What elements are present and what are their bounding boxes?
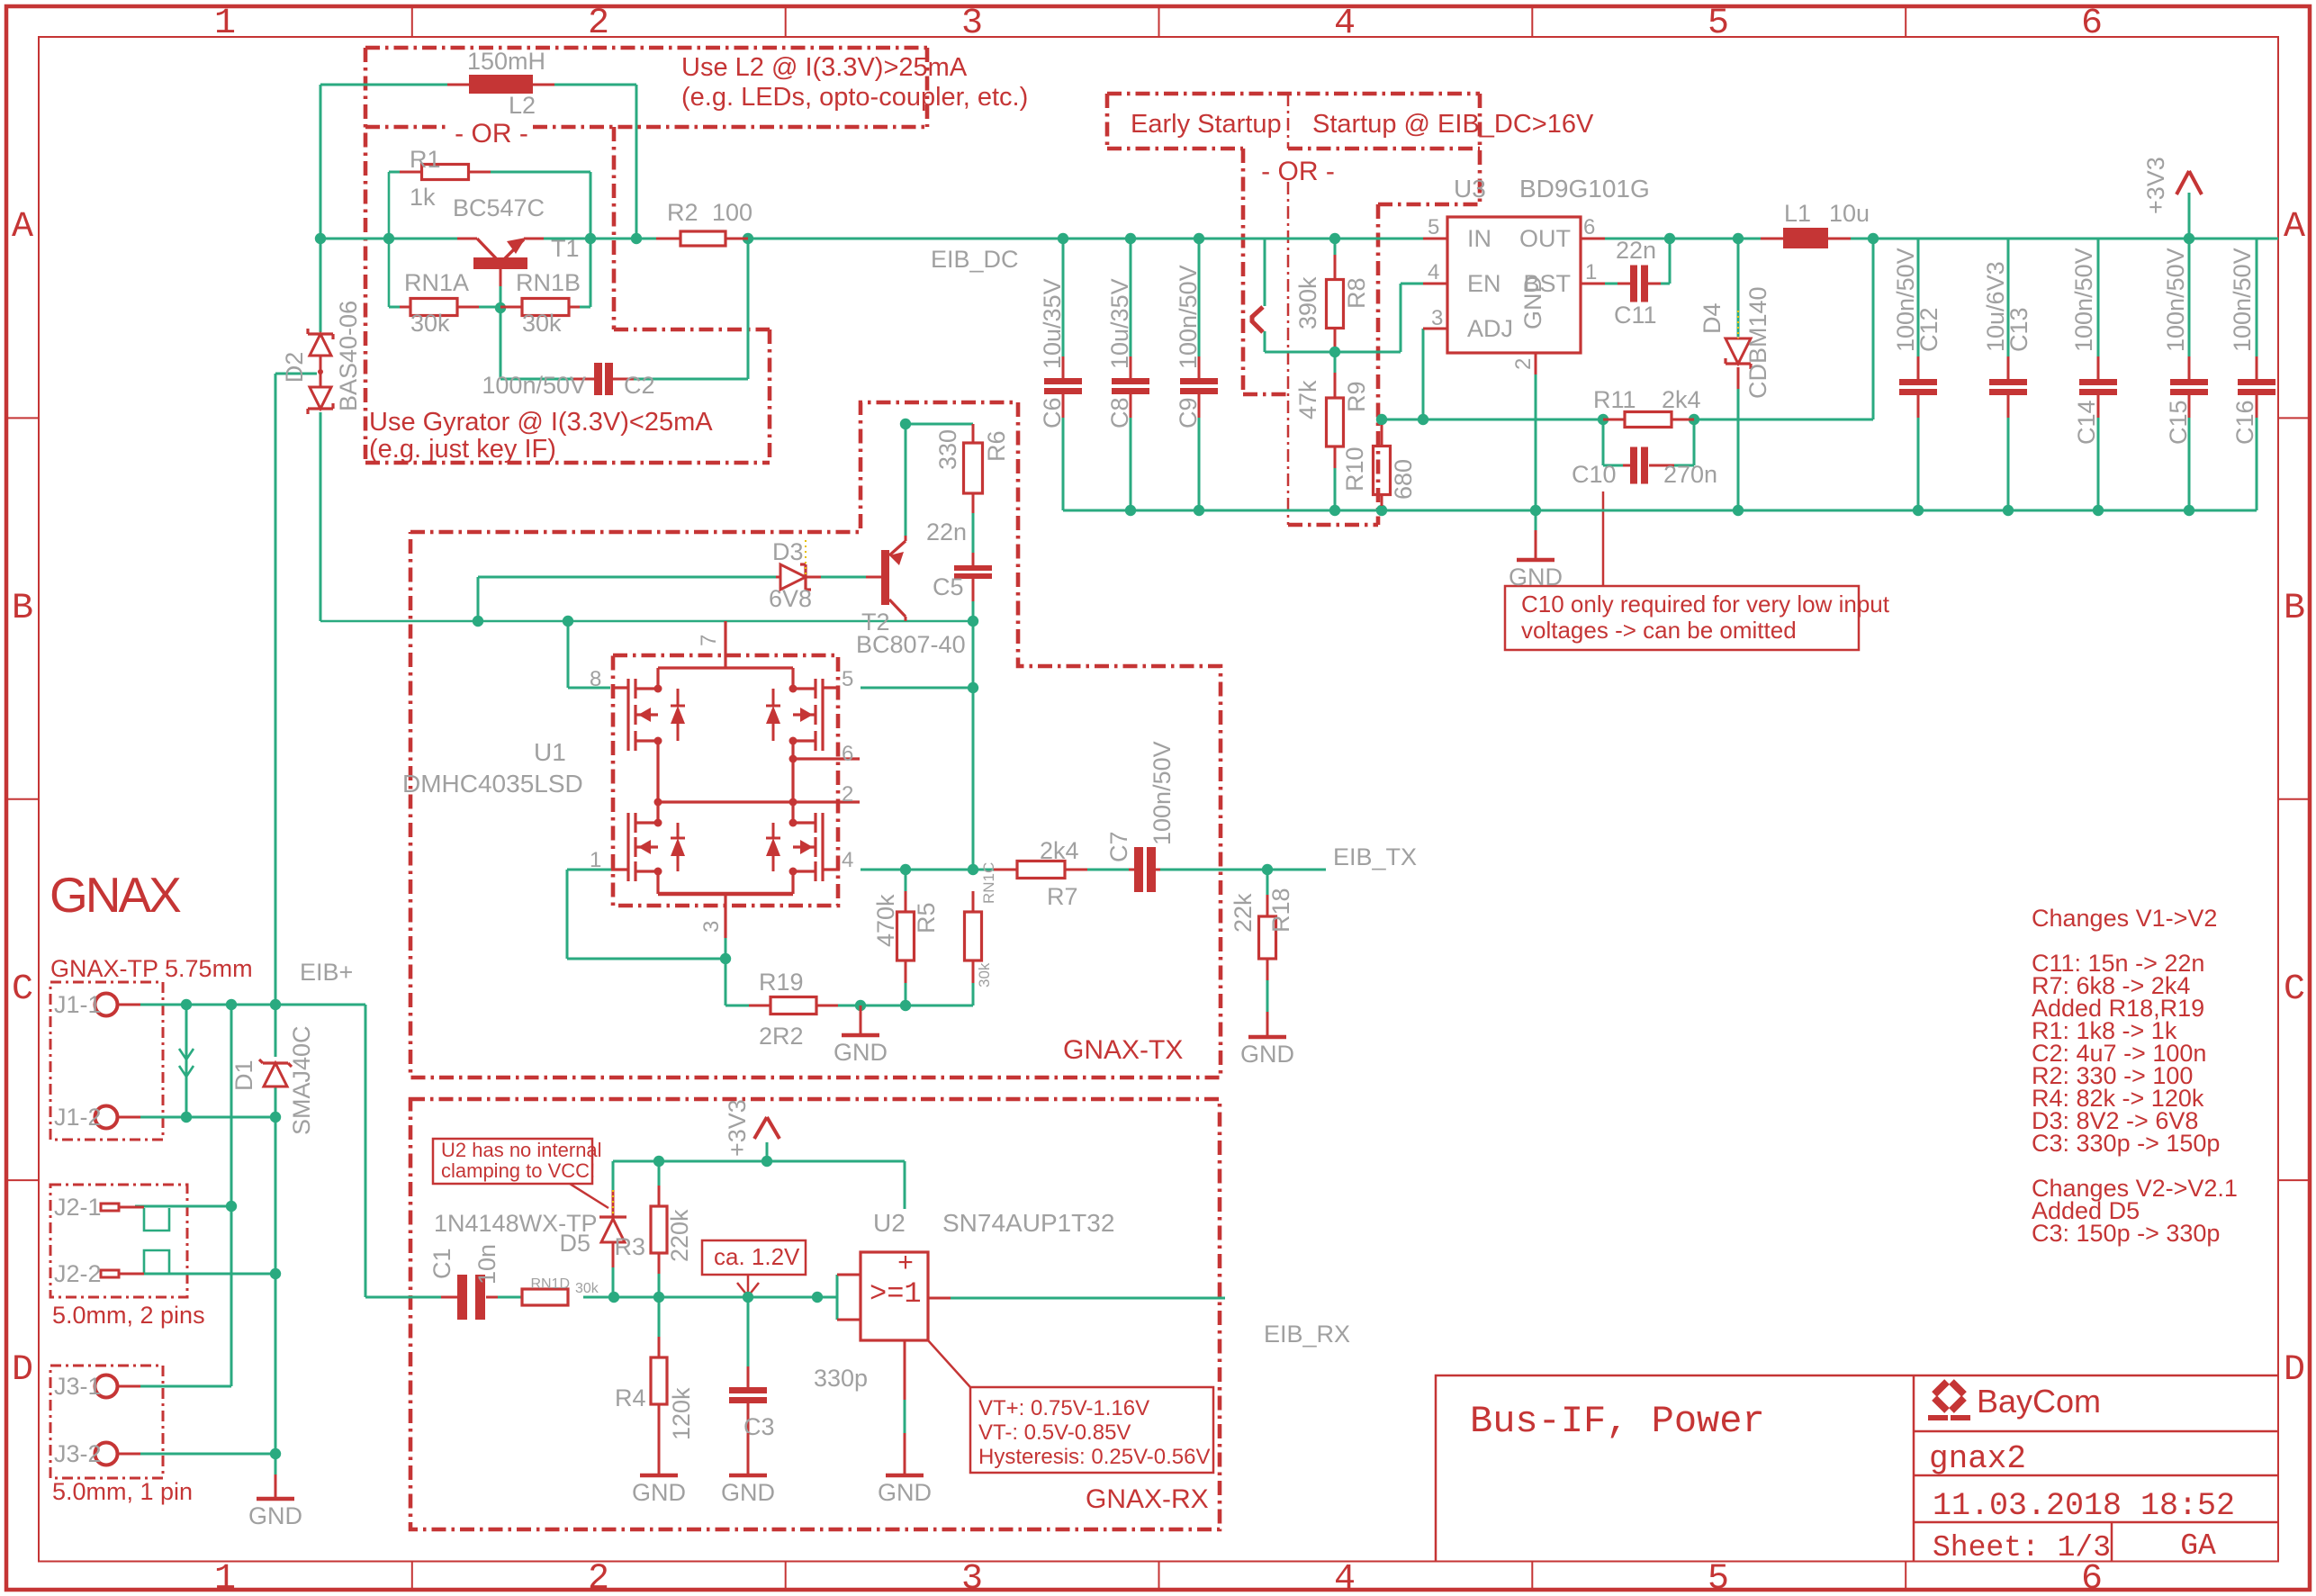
svg-text:100n/50V: 100n/50V: [2162, 248, 2189, 352]
svg-text:VT+: 0.75V-1.16V: VT+: 0.75V-1.16V: [978, 1396, 1149, 1420]
svg-text:3: 3: [961, 4, 983, 44]
capacitor C3: [747, 1366, 750, 1387]
wire D5 bottom: [612, 1242, 615, 1267]
wire C2 right to R2 node: [634, 378, 748, 381]
svg-text:C1: C1: [428, 1248, 455, 1279]
svg-text:Sheet: 1/3: Sheet: 1/3: [1933, 1531, 2111, 1564]
wire J1-2 row: [140, 1116, 275, 1119]
diode D1: [264, 1063, 287, 1087]
wire D2 tap to GND net: [275, 373, 317, 375]
U2 note box: [433, 1139, 592, 1184]
svg-text:GNAX-RX: GNAX-RX: [1086, 1484, 1209, 1514]
GND symbol R19: [860, 1005, 862, 1035]
svg-text:VT-: 0.5V-0.85V: VT-: 0.5V-0.85V: [978, 1420, 1131, 1445]
svg-text:10n: 10n: [473, 1244, 500, 1285]
svg-text:T1: T1: [551, 235, 580, 262]
wire EN jumper: [1264, 239, 1266, 306]
svg-text:100n/50V: 100n/50V: [2070, 248, 2097, 352]
svg-text:D: D: [2284, 1350, 2305, 1391]
wire L1 right: [1851, 238, 2278, 240]
svg-text:2: 2: [588, 1559, 609, 1596]
resistor R19: [749, 1005, 770, 1007]
svg-text:2: 2: [1511, 358, 1536, 370]
svg-text:330: 330: [934, 429, 961, 470]
wire R1 loop: [389, 171, 410, 174]
svg-text:22k: 22k: [1230, 893, 1257, 933]
svg-text:4: 4: [1334, 1559, 1356, 1596]
svg-text:100n/50V: 100n/50V: [1175, 265, 1202, 369]
GNAX-RX box: [410, 1099, 1220, 1529]
svg-text:D1: D1: [230, 1059, 257, 1091]
IC U2 OR gate: [861, 1252, 928, 1340]
wire R11 C10 loop: [1602, 419, 1605, 465]
svg-text:C2: C2: [624, 372, 655, 399]
svg-text:3: 3: [961, 1559, 983, 1596]
svg-text:R19: R19: [759, 969, 804, 996]
wire EIB+ down: [365, 1005, 367, 1297]
wire J2-1 staple: [144, 1208, 169, 1231]
svg-text:8: 8: [590, 667, 601, 691]
svg-text:6: 6: [2081, 4, 2103, 44]
svg-text:SN74AUP1T32: SN74AUP1T32: [942, 1209, 1114, 1237]
svg-text:DMHC4035LSD: DMHC4035LSD: [402, 770, 583, 798]
svg-text:C10: C10: [1572, 461, 1617, 488]
svg-text:BC807-40: BC807-40: [856, 631, 966, 658]
svg-text:clamping to VCC!: clamping to VCC!: [441, 1159, 595, 1182]
capacitor C2: [573, 378, 594, 381]
svg-text:22n: 22n: [926, 518, 967, 546]
U3 GND symbol: [1535, 530, 1537, 560]
svg-text:Early Startup: Early Startup: [1131, 110, 1282, 139]
inductor L2: [469, 75, 533, 94]
diode D3: [776, 576, 780, 579]
svg-text:30k: 30k: [976, 962, 993, 987]
svg-text:+3V3: +3V3: [724, 1099, 751, 1157]
wire right caps: [1917, 239, 1920, 356]
svg-text:GND: GND: [248, 1502, 302, 1529]
wire R3: [658, 1161, 661, 1186]
wire J2-2 staple: [144, 1250, 169, 1273]
frame row ticks right: [2278, 417, 2310, 419]
wire T1 base to RN junction: [500, 286, 502, 307]
svg-text:2k4: 2k4: [1040, 837, 1079, 864]
J2 connector box: [50, 1185, 187, 1297]
wire R10: [1381, 419, 1383, 425]
svg-text:C14: C14: [2073, 400, 2100, 445]
resistor RN1A: [400, 306, 410, 309]
wire EIB_TX row: [861, 869, 994, 871]
wire EIB_DC rail: [320, 238, 471, 240]
connector J2-2: [101, 1270, 119, 1277]
svg-text:J1-1: J1-1: [54, 991, 102, 1018]
svg-text:R9: R9: [1343, 381, 1370, 412]
svg-text:C15: C15: [2165, 400, 2192, 445]
wire EN: [1335, 351, 1401, 354]
svg-text:J2-2: J2-2: [54, 1260, 102, 1287]
svg-text:330p: 330p: [814, 1365, 868, 1392]
svg-text:2R2: 2R2: [759, 1023, 804, 1050]
svg-text:GND: GND: [1240, 1041, 1294, 1068]
resistor RN1D: [522, 1289, 568, 1305]
resistor R3: [658, 1186, 661, 1206]
power +3V3 RX: [754, 1117, 767, 1139]
capacitor C8: [1130, 356, 1132, 378]
svg-text:J3-2: J3-2: [54, 1440, 102, 1467]
wire J2-2 row: [135, 1273, 275, 1276]
diode D2: [310, 334, 331, 356]
wire feedback: [1872, 239, 1875, 419]
wire RN to C2: [500, 308, 502, 379]
svg-text:2k4: 2k4: [1662, 386, 1701, 413]
svg-text:6: 6: [2081, 1559, 2103, 1596]
svg-text:Hysteresis: 0.25V-0.56V: Hysteresis: 0.25V-0.56V: [978, 1445, 1210, 1469]
C10 note box: [1505, 586, 1859, 650]
frame column ticks bottom: [411, 1562, 413, 1591]
wire J2-1 row: [135, 1205, 231, 1208]
GND symbol C3: [747, 1433, 750, 1475]
svg-text:D3: D3: [772, 538, 804, 565]
resistor R11: [1603, 419, 1625, 421]
svg-text:EIB_RX: EIB_RX: [1264, 1321, 1350, 1348]
svg-text:EIB_TX: EIB_TX: [1333, 843, 1417, 870]
svg-text:EIB_DC: EIB_DC: [931, 246, 1019, 273]
svg-text:4: 4: [1428, 260, 1439, 284]
svg-text:5: 5: [842, 667, 853, 691]
wire J3-1 row: [140, 1385, 231, 1388]
J3 connector box: [50, 1366, 163, 1478]
startup selector lines: [1241, 149, 1246, 394]
svg-text:(e.g. just key IF): (e.g. just key IF): [369, 435, 556, 464]
U1 mosfet bottom-right: [814, 813, 816, 833]
svg-text:100n/50V: 100n/50V: [1149, 741, 1176, 845]
GND symbol U2: [904, 1433, 906, 1475]
wire OUT rail: [1605, 238, 1761, 240]
connector J1-1: [95, 994, 118, 1016]
svg-text:EIB+: EIB+: [300, 959, 353, 986]
connector J3-2: [95, 1443, 118, 1465]
wire R5 top bottom: [905, 870, 907, 891]
resistor R18: [1266, 895, 1269, 916]
svg-text:5.0mm, 1 pin: 5.0mm, 1 pin: [52, 1478, 193, 1505]
svg-text:C3: 330p -> 150p: C3: 330p -> 150p: [2032, 1130, 2220, 1157]
connector J1-2: [95, 1106, 118, 1129]
U1 mosfet bottom-left: [634, 813, 636, 833]
U1 mosfet top-left: [634, 679, 636, 699]
svg-text:11.03.2018 18:52: 11.03.2018 18:52: [1933, 1488, 2235, 1524]
svg-text:A: A: [2284, 207, 2305, 248]
svg-text:4: 4: [1334, 4, 1356, 44]
svg-text:1: 1: [214, 4, 236, 44]
U1 mosfet top-right: [814, 679, 816, 699]
svg-text:6: 6: [842, 742, 853, 766]
resistor R7: [994, 869, 1017, 871]
svg-text:EN: EN: [1467, 270, 1501, 297]
capacitor C14: [2079, 379, 2117, 385]
Early Startup box: [1107, 92, 1480, 96]
svg-text:IN: IN: [1467, 225, 1491, 252]
svg-text:GND: GND: [834, 1039, 888, 1066]
VT note box: [970, 1387, 1213, 1473]
svg-text:B: B: [2284, 589, 2305, 629]
ca 1.2V arrow: [747, 1275, 750, 1295]
svg-text:U1: U1: [534, 738, 566, 766]
frame column ticks top: [411, 6, 413, 37]
svg-text:R10: R10: [1341, 446, 1368, 491]
svg-text:6: 6: [1583, 215, 1595, 239]
wire C16: [2256, 239, 2258, 356]
svg-text:R8: R8: [1343, 277, 1370, 309]
C10 note leader: [1602, 491, 1605, 586]
wire U2 output EIB_RX: [951, 1297, 1225, 1300]
svg-text:- OR -: - OR -: [455, 119, 528, 149]
svg-text:RN1D: RN1D: [530, 1276, 570, 1292]
svg-text:4: 4: [842, 848, 853, 872]
svg-text:A: A: [12, 207, 33, 248]
wire 3V3 rail RX: [613, 1160, 905, 1163]
svg-text:C12: C12: [1915, 307, 1942, 352]
wire T2 emitter from R6 node: [905, 424, 907, 540]
wire L2 top: [320, 84, 447, 86]
GND symbol R4: [658, 1433, 661, 1475]
capacitor C11: [1618, 283, 1630, 285]
svg-text:6V8: 6V8: [769, 585, 812, 612]
svg-text:3: 3: [699, 921, 724, 933]
svg-text:C11: C11: [1614, 302, 1657, 329]
svg-text:GND: GND: [1509, 564, 1563, 591]
svg-text:390k: 390k: [1294, 276, 1321, 329]
inductor L1: [1783, 228, 1828, 248]
svg-text:2: 2: [842, 782, 853, 807]
junction dots drive net: [473, 616, 483, 627]
svg-text:GND: GND: [632, 1479, 686, 1506]
svg-text:C: C: [12, 969, 33, 1010]
svg-text:C3: 150p -> 330p: C3: 150p -> 330p: [2032, 1220, 2220, 1247]
resistor R8: [1334, 255, 1337, 278]
wire J3-2 row: [140, 1453, 275, 1456]
capacitor C13: [1989, 379, 2027, 385]
svg-text:CDBM140: CDBM140: [1744, 286, 1771, 399]
U1 internal wiring: [658, 666, 793, 669]
svg-text:5.0mm, 2 pins: 5.0mm, 2 pins: [52, 1302, 205, 1329]
svg-text:Changes V1->V2: Changes V1->V2: [2032, 905, 2217, 932]
svg-text:U2 has no internal: U2 has no internal: [441, 1139, 602, 1161]
svg-text:100n/50V: 100n/50V: [2229, 248, 2256, 352]
U2 note leader: [570, 1184, 608, 1208]
transistor T1: [473, 257, 527, 269]
svg-text:J1-2: J1-2: [54, 1104, 102, 1131]
wire R19 branch: [725, 959, 727, 1005]
svg-text:ca. 1.2V: ca. 1.2V: [714, 1243, 800, 1270]
svg-text:C16: C16: [2231, 400, 2258, 445]
svg-text:Use L2 @ I(3.3V)>25mA: Use L2 @ I(3.3V)>25mA: [681, 53, 968, 82]
resistor R6: [972, 424, 975, 443]
wire D4: [1737, 239, 1740, 337]
wire R8: [1334, 239, 1337, 255]
svg-text:- OR -: - OR -: [1261, 157, 1335, 186]
wire J-plus vertical: [230, 1005, 233, 1386]
wire ADJ row: [1382, 419, 1603, 421]
capacitor C12: [1899, 379, 1937, 385]
svg-text:BC547C: BC547C: [453, 194, 545, 221]
resistor R5: [905, 891, 907, 913]
capacitor C7: [1129, 869, 1134, 871]
wire GND net vertical: [275, 1087, 277, 1474]
capacitor C15: [2170, 379, 2208, 385]
wire U3 gnd: [1535, 374, 1537, 530]
svg-text:C6: C6: [1039, 397, 1066, 428]
svg-text:120k: 120k: [668, 1387, 695, 1440]
wire +3V3 main: [2188, 193, 2191, 239]
wire C3: [747, 1297, 750, 1366]
svg-text:10u/35V: 10u/35V: [1039, 278, 1066, 369]
svg-text:C: C: [2284, 969, 2305, 1010]
svg-text:RN1A: RN1A: [404, 269, 469, 296]
svg-text:RN1B: RN1B: [516, 269, 581, 296]
svg-text:C8: C8: [1106, 397, 1133, 428]
svg-text:U2: U2: [873, 1209, 906, 1237]
svg-text:R2: R2: [667, 199, 698, 226]
svg-text:GA: GA: [2180, 1529, 2216, 1563]
svg-text:470k: 470k: [872, 894, 899, 947]
svg-text:L1: L1: [1784, 200, 1811, 227]
resistor R9: [1334, 373, 1337, 397]
diode D4: [1726, 338, 1751, 364]
svg-text:R1: R1: [410, 146, 441, 173]
svg-text:C5: C5: [933, 573, 964, 600]
wire D2 top: [320, 239, 322, 332]
frame row ticks left: [6, 417, 39, 419]
svg-text:1: 1: [1585, 260, 1597, 284]
svg-text:GND: GND: [1519, 275, 1546, 329]
resistor R10: [1374, 446, 1391, 495]
svg-text:10u: 10u: [1829, 200, 1870, 227]
svg-text:U3: U3: [1454, 175, 1486, 203]
svg-text:100: 100: [712, 199, 752, 226]
svg-text:D5: D5: [559, 1230, 590, 1257]
wire +3V3 RX stub: [766, 1142, 769, 1161]
wire R9: [1334, 352, 1337, 373]
svg-text:30k: 30k: [410, 310, 450, 337]
svg-text:5: 5: [1428, 215, 1439, 239]
svg-text:GNAX: GNAX: [50, 867, 181, 923]
svg-text:GND: GND: [878, 1479, 932, 1506]
svg-text:Startup @ EIB_DC>16V: Startup @ EIB_DC>16V: [1312, 110, 1594, 139]
wire R4: [658, 1297, 661, 1337]
svg-text:Use Gyrator @ I(3.3V)<25mA: Use Gyrator @ I(3.3V)<25mA: [369, 408, 713, 437]
svg-text:5: 5: [1708, 1559, 1729, 1596]
wire pin5: [861, 687, 973, 690]
resistor R1: [400, 171, 421, 174]
svg-text:ADJ: ADJ: [1467, 315, 1513, 342]
ca 1.2V note box: [702, 1240, 806, 1275]
wire RX input row: [498, 1296, 522, 1299]
svg-text:L2: L2: [509, 92, 536, 119]
wire R6 C5 node: [900, 419, 911, 429]
svg-text:D: D: [12, 1350, 33, 1391]
svg-text:30k: 30k: [522, 310, 562, 337]
capacitor C6: [1062, 356, 1065, 378]
junction dots rail left: [315, 233, 326, 244]
svg-text:GNAX-TP 5.75mm: GNAX-TP 5.75mm: [50, 955, 253, 982]
svg-text:220k: 220k: [666, 1209, 693, 1262]
svg-text:R4: R4: [615, 1384, 646, 1411]
wire pin1 loop: [567, 869, 613, 871]
wire pin3: [725, 938, 727, 959]
wire ADJ: [1422, 329, 1425, 419]
svg-text:10u/35V: 10u/35V: [1106, 278, 1133, 369]
svg-text:C13: C13: [2005, 307, 2032, 352]
svg-text:(e.g. LEDs, opto-coupler, etc.: (e.g. LEDs, opto-coupler, etc.): [681, 83, 1028, 112]
GND symbol GNAX: [275, 1474, 277, 1499]
capacitor C5: [972, 553, 975, 565]
wire C6 C8 C9 bottoms: [1062, 418, 1065, 510]
svg-text:J2-1: J2-1: [54, 1194, 102, 1221]
connector J3-1: [95, 1375, 118, 1398]
svg-text:1: 1: [590, 848, 601, 872]
svg-text:7: 7: [697, 635, 721, 646]
svg-text:BD9G101G: BD9G101G: [1519, 175, 1650, 203]
svg-text:680: 680: [1390, 459, 1417, 500]
title block frame: [1436, 1375, 2278, 1562]
IC U1 outline: [613, 655, 838, 906]
Use L2 annotation box: [365, 46, 927, 50]
svg-text:1k: 1k: [410, 184, 436, 211]
J1 connector box: [50, 982, 163, 1140]
svg-text:SMAJ40C: SMAJ40C: [288, 1025, 315, 1135]
wire D2 bottom to drive net: [320, 412, 322, 621]
svg-text:270n: 270n: [1663, 461, 1717, 488]
diode D5: [599, 1215, 626, 1218]
svg-text:22n: 22n: [1616, 237, 1656, 264]
svg-text:+: +: [897, 1249, 914, 1280]
BayCom logo: [1934, 1382, 1964, 1411]
resistor R2: [656, 238, 680, 240]
wire J1-1 row EIB+: [140, 1004, 365, 1006]
wire C6 C8 C9 tops: [1062, 239, 1065, 356]
wire J1 polarity arrow: [185, 1005, 188, 1117]
capacitor C9: [1198, 356, 1201, 378]
svg-text:R11: R11: [1593, 386, 1636, 413]
wire RN1C bottom: [972, 983, 975, 1005]
wire drive to pin8: [567, 621, 570, 688]
svg-text:J3-1: J3-1: [54, 1373, 102, 1400]
svg-text:1: 1: [214, 1559, 236, 1596]
svg-text:Bus-IF, Power: Bus-IF, Power: [1470, 1400, 1765, 1443]
svg-text:B: B: [12, 589, 33, 629]
svg-text:47k: 47k: [1294, 380, 1321, 419]
wire U2 gnd: [904, 1340, 906, 1400]
power +3V3 right: [2176, 171, 2189, 194]
capacitor C16: [2238, 379, 2275, 385]
connector J2-1: [101, 1204, 119, 1211]
IC U3: [1447, 217, 1581, 353]
svg-text:30k: 30k: [575, 1281, 599, 1296]
svg-text:C7: C7: [1105, 831, 1132, 862]
capacitor C10: [1630, 447, 1637, 484]
svg-text:150mH: 150mH: [467, 48, 545, 75]
svg-text:D2: D2: [281, 352, 308, 383]
svg-text:D4: D4: [1699, 302, 1726, 334]
wire R18: [1266, 870, 1269, 895]
wire bottom rail: [1063, 509, 2257, 512]
svg-text:R18: R18: [1267, 888, 1294, 933]
svg-text:BayCom: BayCom: [1977, 1383, 2101, 1420]
svg-text:>=1: >=1: [870, 1277, 922, 1311]
GND symbol R18: [1266, 1012, 1269, 1037]
svg-text:5: 5: [1708, 4, 1729, 44]
svg-text:R7: R7: [1047, 883, 1078, 910]
svg-text:GND: GND: [721, 1479, 775, 1506]
